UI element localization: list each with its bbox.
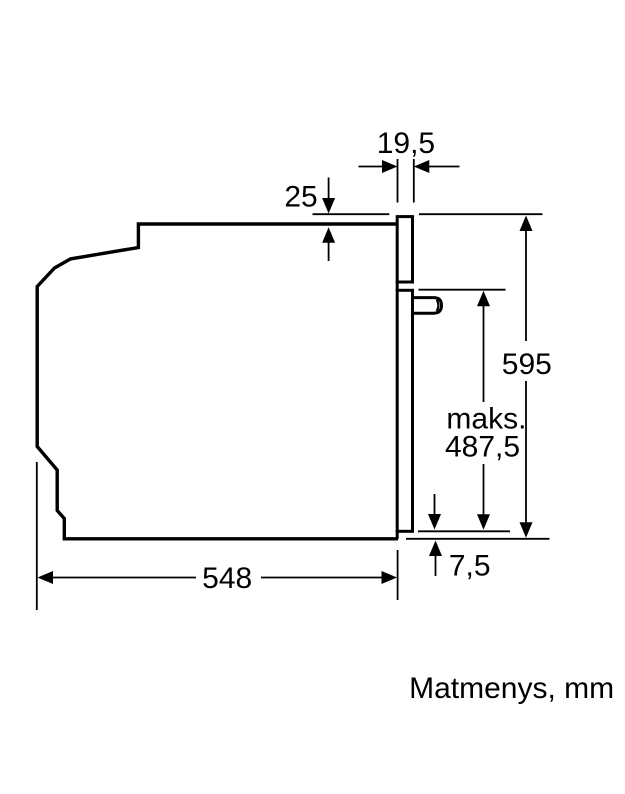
- svg-text:7,5: 7,5: [449, 550, 491, 583]
- svg-text:548: 548: [202, 562, 252, 595]
- svg-text:Matmenys, mm: Matmenys, mm: [409, 672, 614, 705]
- svg-text:19,5: 19,5: [377, 127, 435, 160]
- svg-text:25: 25: [284, 181, 317, 214]
- svg-text:595: 595: [502, 348, 552, 381]
- svg-text:487,5: 487,5: [445, 431, 520, 464]
